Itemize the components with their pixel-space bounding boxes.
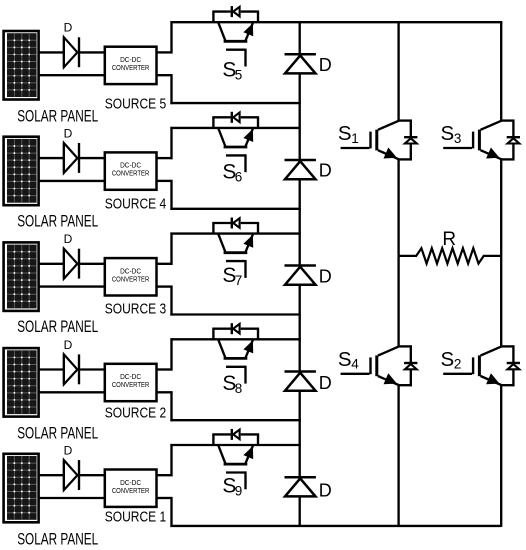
wire panel- to converter input <box>39 497 106 499</box>
wire diode bus segment <box>299 391 301 478</box>
wire converter out+ <box>157 157 173 159</box>
wire converter out+ <box>157 51 173 53</box>
solar panel (source 2) <box>4 348 39 417</box>
svg-text:D: D <box>64 338 73 352</box>
wire diode cathode to converter input <box>79 51 106 53</box>
wire collector jog <box>500 119 514 121</box>
svg-text:1: 1 <box>351 131 359 146</box>
wire converter out- <box>157 391 173 393</box>
svg-text:D: D <box>319 55 332 75</box>
wire collector jog <box>500 345 514 347</box>
transistor S8 (row IGBT switch) <box>212 323 259 383</box>
wire drop to loop bottom <box>170 74 172 104</box>
diode D (source 4 blocking diode) <box>64 143 79 173</box>
wire converter out- <box>157 285 173 287</box>
svg-text:CONVERTER: CONVERTER <box>112 488 150 495</box>
svg-text:S: S <box>338 348 352 371</box>
diode D (bypass diode, source 5) <box>285 54 316 73</box>
diode (anti-parallel, S1) <box>404 136 417 138</box>
svg-text:4: 4 <box>351 357 359 372</box>
gate <box>226 366 246 368</box>
wire panel+ to diode anode <box>39 51 65 53</box>
gate <box>226 471 246 473</box>
IGBT body <box>218 445 226 465</box>
svg-text:CONVERTER: CONVERTER <box>112 382 150 389</box>
svg-text:D: D <box>64 21 73 35</box>
diode D (source 3 blocking diode) <box>64 249 79 279</box>
diode (anti-parallel, S4) <box>404 362 417 364</box>
diode (anti-parallel, S2) <box>507 362 520 364</box>
wire converter out- <box>157 180 173 182</box>
svg-text:5: 5 <box>235 67 243 82</box>
wire row top bus <box>170 232 300 234</box>
svg-text:SOURCE 2: SOURCE 2 <box>105 405 167 422</box>
wire drop to loop bottom <box>170 180 172 210</box>
svg-text:SOURCE 5: SOURCE 5 <box>105 95 167 112</box>
wire panel- to converter input <box>39 391 106 393</box>
diode (anti-parallel, S5) <box>231 6 233 17</box>
svg-text:SOLAR PANEL: SOLAR PANEL <box>17 318 98 336</box>
svg-text:SOLAR PANEL: SOLAR PANEL <box>17 530 98 548</box>
svg-text:DC-DC: DC-DC <box>120 57 141 64</box>
svg-text:D: D <box>319 161 332 181</box>
transistor S9 (row IGBT switch) <box>212 429 259 489</box>
IGBT body <box>375 355 378 376</box>
solar panel (source 1) <box>4 454 39 523</box>
svg-text:8: 8 <box>235 381 243 396</box>
wire loop bottom <box>170 419 300 421</box>
wire left leg lower <box>397 385 399 527</box>
wire riser to row bus <box>170 233 172 265</box>
wire riser to row bus <box>170 338 172 370</box>
transistor S2 (H-bridge IGBT) <box>443 345 520 386</box>
IGBT body <box>218 128 226 148</box>
diode D (source 1 blocking diode) <box>64 460 79 490</box>
svg-text:2: 2 <box>454 357 462 372</box>
transistor S4 (H-bridge IGBT) <box>341 345 418 386</box>
diode D (source 2 blocking diode) <box>64 354 79 384</box>
IGBT body <box>218 339 226 359</box>
svg-text:D: D <box>64 232 73 246</box>
wire panel+ to diode anode <box>39 368 65 370</box>
wire diode bus segment <box>299 285 301 372</box>
wire converter out+ <box>157 474 173 476</box>
wire diode bus (top segment) <box>299 21 301 54</box>
svg-text:SOURCE 4: SOURCE 4 <box>105 196 167 213</box>
wire riser to row bus <box>170 444 172 476</box>
dc-dc converter (source 2) <box>105 364 157 401</box>
wire diode cathode to converter input <box>79 474 106 476</box>
transistor S5 (row IGBT switch) <box>212 6 259 66</box>
wire emitter jog <box>410 144 412 161</box>
wire converter out+ <box>157 368 173 370</box>
resistor R (load) <box>399 248 502 263</box>
diode D (bypass diode, source 1) <box>285 477 316 496</box>
wire emitter jog <box>512 144 514 161</box>
wire right leg lower <box>500 385 502 527</box>
svg-text:DC-DC: DC-DC <box>120 163 141 170</box>
svg-text:3: 3 <box>454 131 462 146</box>
wire panel+ to diode anode <box>39 157 65 159</box>
svg-text:D: D <box>319 267 332 287</box>
gate <box>226 154 246 156</box>
wire right leg upper <box>500 21 502 121</box>
wire row top bus <box>170 127 300 129</box>
wire converter out- <box>157 74 173 76</box>
svg-text:CONVERTER: CONVERTER <box>112 276 150 283</box>
wire drop to loop bottom <box>170 391 172 421</box>
diode D (bypass diode, source 2) <box>285 372 316 391</box>
gate <box>226 49 246 51</box>
wire diode cathode to converter input <box>79 263 106 265</box>
wire panel- to converter input <box>39 180 106 182</box>
wire emitter jog <box>410 369 412 386</box>
diode (anti-parallel, S7) <box>231 218 233 229</box>
wire diode bus segment <box>299 496 301 527</box>
svg-text:S: S <box>441 122 455 145</box>
svg-text:SOLAR PANEL: SOLAR PANEL <box>17 425 98 443</box>
wire row top bus <box>170 444 300 446</box>
solar panel (source 5) <box>4 31 39 100</box>
wire row top bus <box>170 338 300 340</box>
wire row top bus <box>170 21 502 23</box>
svg-text:D: D <box>319 373 332 393</box>
wire panel- to converter input <box>39 74 106 76</box>
wire diode cathode to converter input <box>79 157 106 159</box>
svg-text:CONVERTER: CONVERTER <box>112 65 150 72</box>
diode (anti-parallel, S3) <box>507 136 520 138</box>
dc-dc converter (source 1) <box>105 470 157 507</box>
svg-text:SOURCE 1: SOURCE 1 <box>105 509 167 526</box>
wire panel+ to diode anode <box>39 263 65 265</box>
wire collector jog <box>398 345 412 347</box>
wire left leg upper <box>397 21 399 121</box>
svg-text:D: D <box>64 444 73 458</box>
wire panel+ to diode anode <box>39 474 65 476</box>
svg-text:S: S <box>441 348 455 371</box>
IGBT body <box>478 130 481 151</box>
diode D (bypass diode, source 3) <box>285 266 316 285</box>
wire panel- to converter input <box>39 285 106 287</box>
gate <box>226 260 246 262</box>
IGBT body <box>218 233 226 253</box>
wire emitter jog <box>512 369 514 386</box>
wire riser to row bus <box>170 21 172 53</box>
diode (anti-parallel, S6) <box>231 112 233 123</box>
wire riser to row bus <box>170 127 172 159</box>
diode (anti-parallel, S8) <box>231 323 233 334</box>
IGBT body <box>478 355 481 376</box>
svg-text:SOLAR PANEL: SOLAR PANEL <box>17 213 98 231</box>
svg-text:CONVERTER: CONVERTER <box>112 171 150 178</box>
wire loop bottom <box>170 102 300 104</box>
wire collector jog <box>398 119 412 121</box>
transistor S6 (row IGBT switch) <box>212 112 259 172</box>
svg-text:9: 9 <box>235 484 243 499</box>
wire loop bottom <box>170 525 501 527</box>
solar panel (source 4) <box>4 137 39 206</box>
svg-text:DC-DC: DC-DC <box>120 374 141 381</box>
wire right leg middle <box>500 158 502 347</box>
wire diode cathode to converter input <box>79 368 106 370</box>
svg-text:DC-DC: DC-DC <box>120 480 141 487</box>
wire left leg middle <box>397 158 399 347</box>
transistor S7 (row IGBT switch) <box>212 218 259 278</box>
svg-text:DC-DC: DC-DC <box>120 268 141 275</box>
dc-dc converter (source 3) <box>105 258 157 295</box>
transistor S1 (H-bridge IGBT) <box>341 120 418 161</box>
solar panel (source 3) <box>4 242 39 311</box>
wire loop bottom <box>170 313 300 315</box>
dc-dc converter (source 4) <box>105 152 157 189</box>
svg-text:R: R <box>442 229 456 250</box>
diode D (bypass diode, source 4) <box>285 160 316 179</box>
svg-text:7: 7 <box>235 273 243 288</box>
svg-text:D: D <box>319 481 332 501</box>
svg-text:SOLAR PANEL: SOLAR PANEL <box>17 108 98 126</box>
IGBT body <box>375 130 378 151</box>
transistor S3 (H-bridge IGBT) <box>443 120 520 161</box>
wire drop to loop bottom <box>170 286 172 316</box>
svg-text:D: D <box>64 126 73 140</box>
wire converter out+ <box>157 263 173 265</box>
diode D (source 5 blocking diode) <box>64 37 79 67</box>
wire loop bottom <box>170 208 300 210</box>
svg-text:S: S <box>338 122 352 145</box>
wire diode bus segment <box>299 73 301 160</box>
diode (anti-parallel, S9) <box>231 429 233 440</box>
IGBT body <box>218 22 226 42</box>
dc-dc converter (source 5) <box>105 47 157 84</box>
wire drop to loop bottom <box>170 497 172 527</box>
wire converter out- <box>157 497 173 499</box>
svg-text:6: 6 <box>235 170 243 185</box>
svg-text:SOURCE 3: SOURCE 3 <box>105 301 167 318</box>
wire diode bus segment <box>299 179 301 265</box>
